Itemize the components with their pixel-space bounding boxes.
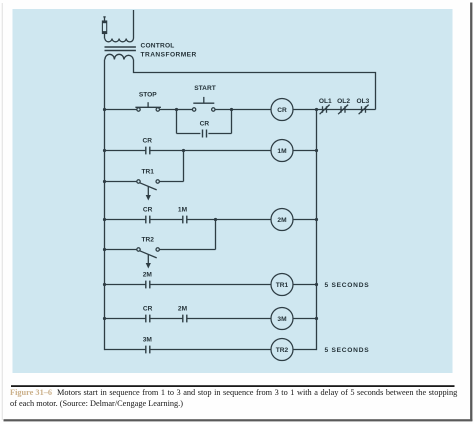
svg-text:CR: CR: [143, 138, 153, 145]
contact CR (NO) rung2: [146, 147, 150, 155]
wire tr2 branch right: [159, 249, 215, 251]
wire rung 6 middle: [187, 318, 271, 320]
node rung2-branch: [182, 149, 185, 152]
page border right: [470, 3, 472, 422]
node tr1-branch-left-rail: [103, 180, 106, 183]
wire overload section: [317, 109, 376, 111]
node rung6-left-rail: [103, 317, 106, 320]
svg-text:3M: 3M: [277, 316, 287, 323]
node rung5-left-rail: [103, 283, 106, 286]
wire branch up to node B: [231, 110, 233, 134]
caption rule: [11, 385, 455, 387]
wire tr1 branch left: [105, 181, 137, 183]
wire rung 4 middle: [187, 219, 271, 221]
wire: secondary feed to right side: [134, 60, 376, 110]
overload contact OL1: [320, 105, 330, 115]
coil 2M: [271, 209, 293, 231]
svg-text:1M: 1M: [178, 207, 188, 214]
node rung2-left-rail: [103, 149, 106, 152]
svg-text:OL2: OL2: [337, 98, 350, 105]
fuse F1: [102, 17, 107, 39]
label CONTROL TRANSFORMER: [141, 43, 197, 59]
wire tr2 branch up to rung4: [215, 220, 217, 250]
wire STOP to node A: [160, 109, 177, 111]
timed contact TR1 (NOTC): [137, 180, 160, 201]
overload contact OL2: [338, 105, 348, 115]
svg-text:5 SECONDS: 5 SECONDS: [325, 282, 370, 289]
svg-text:2M: 2M: [178, 306, 188, 313]
wire branch down from node A: [176, 110, 178, 134]
svg-text:CR: CR: [143, 306, 153, 313]
svg-text:OL3: OL3: [356, 98, 369, 105]
coil TR2: [271, 339, 293, 361]
wire tr1 branch up to rung2: [183, 151, 185, 182]
wire rung 4 between contacts: [150, 219, 183, 221]
node rung1-right-rail: [315, 108, 318, 111]
wire coil TR2 to right rail: [293, 349, 317, 351]
svg-text:TR2: TR2: [141, 237, 154, 244]
node rung4-right-rail: [315, 218, 318, 221]
contact CR (NO) rung4: [146, 216, 150, 224]
wire: right power rail: [316, 110, 318, 351]
coil CR: [271, 99, 293, 121]
node tr2-branch-left-rail: [103, 248, 106, 251]
wire coil 2M to right rail: [293, 219, 317, 221]
wire rung 7 left: [105, 349, 146, 351]
svg-text:OL1: OL1: [319, 98, 332, 105]
wire branch bottom right: [208, 133, 231, 135]
coil 3M: [271, 308, 293, 330]
wire rung 7 middle: [150, 349, 271, 351]
contact CR holding (NO): [203, 130, 207, 138]
page border bottom: [4, 419, 473, 421]
wire coil 1M to right rail: [293, 150, 317, 152]
node rung4-branch: [214, 218, 217, 221]
node A: [175, 108, 178, 111]
coil 1M: [271, 140, 293, 162]
node rung1-left-rail: [103, 108, 106, 111]
wire coil CR to right rail: [293, 109, 317, 111]
wire tr1 branch right: [159, 181, 183, 183]
page border left (faint): [1, 3, 4, 420]
svg-text:3M: 3M: [143, 337, 153, 344]
control transformer T1 core: [105, 47, 136, 51]
svg-text:TR2: TR2: [276, 347, 289, 354]
svg-text:STOP: STOP: [139, 91, 157, 98]
figure caption: [10, 388, 470, 409]
wire rung 5 middle: [150, 284, 271, 286]
svg-text:CR: CR: [200, 121, 210, 128]
pushbutton STOP (NC): [135, 102, 161, 111]
svg-text:2M: 2M: [143, 272, 153, 279]
wire tr2 branch left: [105, 249, 137, 251]
control transformer T1 secondary winding: [105, 54, 133, 59]
wire branch bottom left: [177, 133, 201, 135]
wire rung 2 left: [105, 150, 146, 152]
node rung2-right-rail: [315, 149, 318, 152]
contact 3M (NO) rung7: [146, 346, 150, 354]
node B: [230, 108, 233, 111]
timed contact TR2 (NOTC): [137, 248, 160, 269]
svg-text:5 SECONDS: 5 SECONDS: [325, 347, 370, 354]
wire rung 6 between contacts: [150, 318, 183, 320]
svg-text:TRANSFORMER: TRANSFORMER: [141, 52, 197, 59]
contact 2M (NO) rung6: [183, 315, 187, 323]
wire: left power rail: [104, 60, 106, 351]
wire coil 3M to right rail: [293, 318, 317, 320]
node rung5-right-rail: [315, 283, 318, 286]
control transformer T1 primary winding: [105, 10, 134, 42]
svg-text:2M: 2M: [277, 217, 287, 224]
wire coil TR1 to right rail: [293, 284, 317, 286]
wire rung 1 left: [105, 109, 137, 111]
pushbutton START (NO): [192, 97, 215, 111]
svg-text:TR1: TR1: [276, 282, 289, 289]
overload contact OL3: [359, 105, 369, 115]
wire rung 4 left: [105, 219, 146, 221]
diagram panel background: [13, 9, 453, 373]
svg-text:TR1: TR1: [141, 169, 154, 176]
svg-text:START: START: [194, 85, 216, 92]
wire node B to coil CR: [232, 109, 272, 111]
svg-text:CR: CR: [277, 107, 287, 114]
wire rung 5 left: [105, 284, 146, 286]
wire START to node B: [215, 109, 232, 111]
wire rung 2 middle: [150, 150, 271, 152]
contact CR (NO) rung6: [146, 315, 150, 323]
contact 1M (NO) rung4: [183, 216, 187, 224]
svg-text:1M: 1M: [277, 148, 287, 155]
wire rung 6 left: [105, 318, 146, 320]
node rung4-left-rail: [103, 218, 106, 221]
svg-text:CR: CR: [143, 207, 153, 214]
svg-text:CONTROL: CONTROL: [141, 43, 175, 50]
contact 2M (NO) rung5: [146, 281, 150, 289]
coil TR1: [271, 274, 293, 296]
wire node A to START: [177, 109, 193, 111]
node rung6-right-rail: [315, 317, 318, 320]
